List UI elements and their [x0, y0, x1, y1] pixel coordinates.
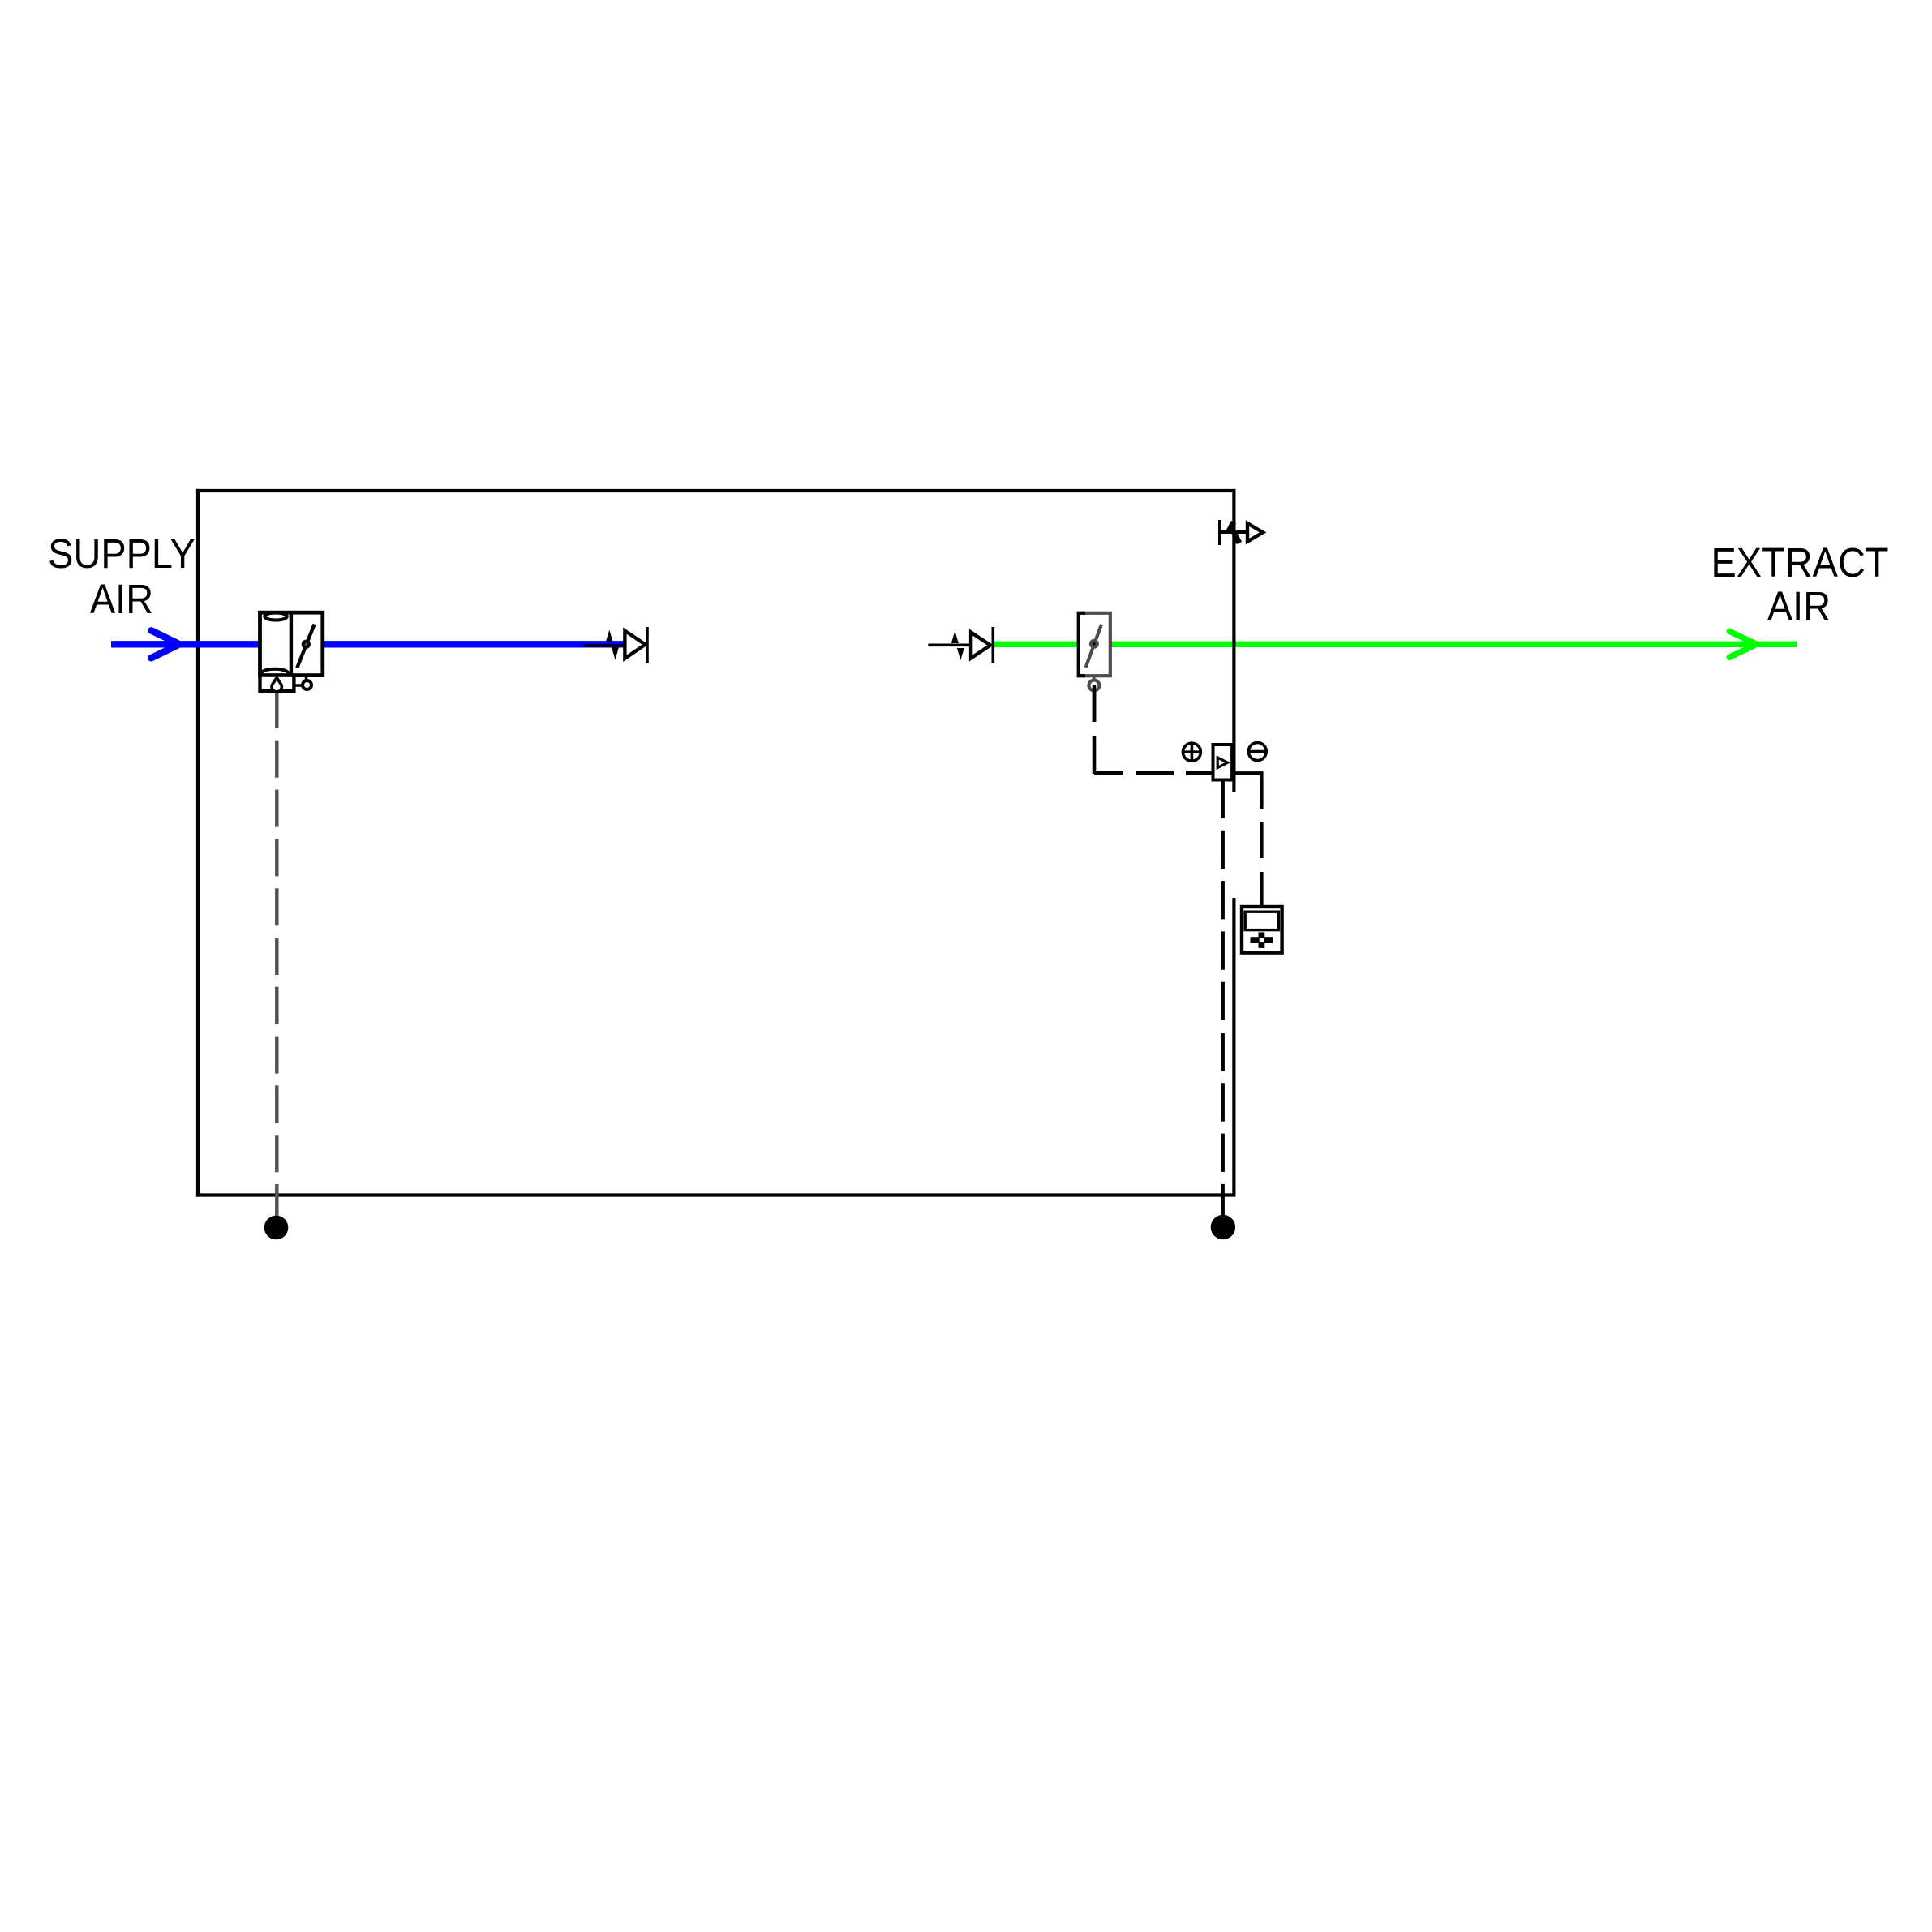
svg-text:SUPPLY: SUPPLY: [48, 531, 195, 577]
svg-text:AIR: AIR: [1767, 584, 1831, 629]
svg-text:AIR: AIR: [90, 577, 153, 622]
svg-text:EXTRACT: EXTRACT: [1711, 540, 1889, 586]
